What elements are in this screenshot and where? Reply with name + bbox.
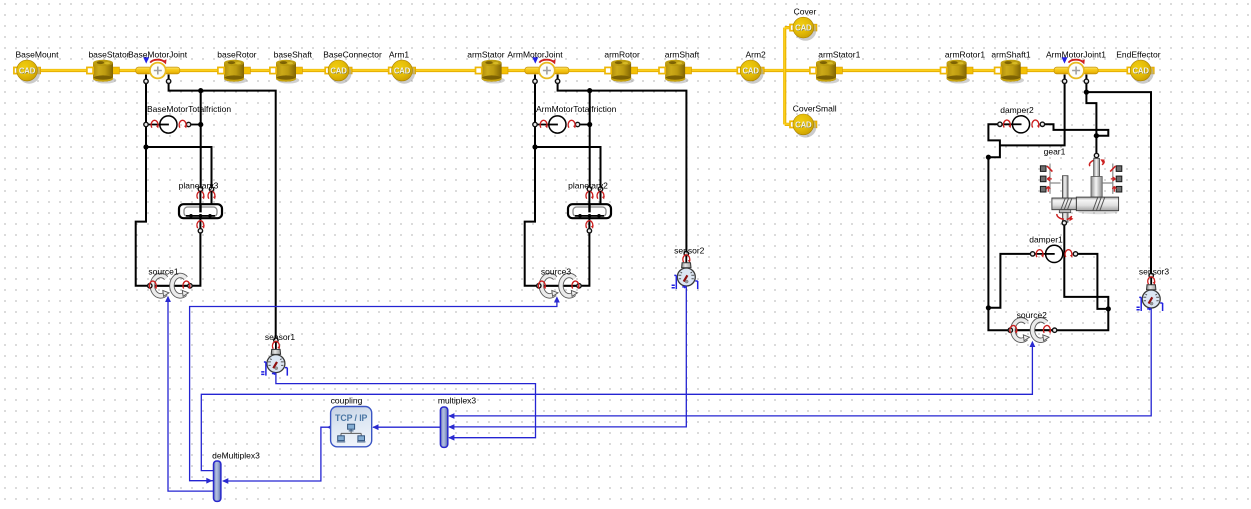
pin joint1 flanges	[1062, 79, 1066, 83]
wire damper2 left staircase down to source2 left	[988, 124, 1008, 330]
component CoverSmall	[790, 114, 817, 138]
component source3	[537, 275, 582, 296]
component planetary2	[568, 187, 611, 233]
wire from rail A junction to planetary right top pin	[146, 147, 212, 187]
svg-text:Arm1: Arm1	[389, 49, 410, 59]
component armShaft	[659, 60, 691, 84]
svg-text:armStator: armStator	[467, 49, 504, 59]
component multiplex3	[440, 407, 447, 447]
wire multiplex3 out to coupling	[373, 426, 440, 428]
svg-text:sensor1: sensor1	[265, 332, 296, 342]
wire deMultiplex3 out2 to source3	[190, 298, 557, 481]
arrowhead at coupling left pin	[327, 424, 333, 430]
gear1 housing bracket left	[1050, 164, 1061, 194]
svg-text:multiplex3: multiplex3	[438, 395, 477, 405]
component ArmMotorJoint1	[1054, 57, 1098, 78]
component source2	[1008, 320, 1057, 341]
junction dots arm assembly	[587, 88, 592, 93]
svg-text:armRotor1: armRotor1	[945, 49, 985, 59]
svg-text:BaseMotorJoint: BaseMotorJoint	[128, 49, 188, 59]
wire branch to Cover / CoverSmall	[785, 28, 791, 125]
wire deMultiplex3 out1 to source2	[201, 343, 1032, 471]
gear1 housing bracket right	[1102, 164, 1113, 194]
junction dots base assembly	[198, 88, 203, 93]
svg-text:planetary3: planetary3	[179, 180, 219, 190]
pin joint arm flanges	[533, 79, 537, 83]
svg-text:damper1: damper1	[1029, 235, 1063, 245]
component baseShaft	[270, 60, 303, 84]
wire joint support drop, H1 run right, long drop to sensor1	[169, 75, 276, 339]
svg-text:Arm2: Arm2	[745, 49, 766, 59]
arrowhead into deMultiplex3 right	[222, 478, 228, 484]
wire damper1 left down to rail	[988, 254, 1030, 308]
svg-text:BaseMotorTotalfriction: BaseMotorTotalfriction	[147, 104, 231, 114]
arrowhead at deMultiplex3 out2	[206, 478, 212, 484]
wire rail B: junction down through friction right pin to planetary pin	[200, 91, 202, 187]
svg-text:BaseMount: BaseMount	[16, 49, 60, 59]
wire friction right link	[187, 124, 201, 126]
component ArmMotorTotalfriction	[533, 116, 580, 133]
svg-text:planetary2: planetary2	[568, 180, 608, 190]
pin joint base flanges	[144, 79, 148, 83]
wire friction2 right link	[576, 124, 590, 126]
component BaseMount	[14, 60, 41, 84]
svg-text:EndEffector: EndEffector	[1116, 49, 1160, 59]
svg-text:damper2: damper2	[1000, 105, 1034, 115]
gear1 housing squares right	[1116, 166, 1122, 192]
wire friction left link	[146, 124, 168, 126]
svg-text:armShaft: armShaft	[665, 49, 700, 59]
wire sensor1 output to multiplex3 in3	[276, 373, 536, 438]
component sensor2	[672, 251, 698, 289]
wire deMultiplex3 out3 to source1	[168, 298, 213, 492]
arrowhead into coupling right	[372, 424, 378, 430]
wire main bus	[20, 69, 1150, 72]
component sensor3	[1137, 273, 1163, 311]
component deMultiplex3	[214, 461, 221, 501]
component Cover	[790, 17, 817, 41]
junction dots wrist assembly	[1084, 90, 1089, 95]
wire rail B arm: down through friction2 right pin to planetary2 pin	[589, 91, 591, 187]
component source1	[148, 275, 193, 296]
gear1 bottom hub and output shaft	[1059, 210, 1070, 213]
gear1 housing squares left	[1040, 166, 1046, 192]
wire sensor3 output to multiplex3 in1	[449, 308, 1151, 416]
component coupling TCP/IP	[331, 407, 372, 447]
svg-text:baseRotor: baseRotor	[217, 49, 256, 59]
wire joint flange_a drop + jog to source3 left	[525, 75, 537, 286]
component Arm1	[389, 60, 416, 84]
pin gear1 top	[1094, 153, 1098, 157]
component armStator	[476, 60, 509, 84]
wire rail A arm junction to planetary2 right top pin	[535, 147, 601, 187]
wire damper2 right hook to gear shaft	[1045, 124, 1109, 135]
svg-text:armRotor: armRotor	[604, 49, 640, 59]
svg-text:BaseConnector: BaseConnector	[323, 49, 382, 59]
gear1 red accents right	[1110, 166, 1115, 172]
svg-text:armShaft1: armShaft1	[991, 49, 1030, 59]
gear1 right input shaft	[1094, 159, 1100, 198]
component planetary3	[179, 187, 222, 233]
wire sensor2 output to multiplex3 in2	[449, 286, 686, 427]
component BaseConnector	[325, 60, 352, 84]
svg-text:Cover: Cover	[794, 7, 817, 17]
wire joint1 flange_a drop to damper2 row	[1000, 75, 1065, 146]
arrowheads into sources	[1030, 341, 1036, 347]
component EndEffector	[1127, 60, 1154, 84]
wire friction2 left link	[535, 124, 557, 126]
svg-text:ArmMotorTotalfriction: ArmMotorTotalfriction	[536, 104, 617, 114]
component Arm2	[737, 60, 764, 84]
arrowheads: multiplex3 inputs	[448, 413, 454, 419]
wire planetary bottom pin to source1 right	[192, 233, 200, 286]
svg-text:armStator1: armStator1	[818, 49, 860, 59]
wire joint support drop, run right, long drop to sensor2	[558, 75, 687, 253]
component gear1	[1040, 153, 1121, 225]
svg-text:sensor2: sensor2	[674, 245, 705, 255]
wire joint1 support drop, run right to sensor3, jog down to gear1 top	[1086, 75, 1151, 274]
component sensor1	[261, 338, 287, 376]
component armShaft1	[995, 60, 1027, 84]
component BaseMotorJoint	[136, 57, 180, 78]
wire coupling out to deMultiplex3 in	[223, 427, 331, 481]
svg-text:source1: source1	[148, 266, 179, 276]
component armRotor1	[941, 60, 973, 84]
component baseStator	[87, 60, 120, 84]
svg-text:source2: source2	[1017, 310, 1048, 320]
gear1 red accents left	[1047, 166, 1052, 172]
svg-text:TCP / IP: TCP / IP	[335, 413, 368, 423]
wire damper1 internal line	[1033, 253, 1055, 255]
svg-text:sensor3: sensor3	[1139, 266, 1170, 276]
wire joint flange_a drop + jog to source1 left	[136, 75, 148, 286]
component armStator1	[810, 60, 842, 84]
svg-text:CoverSmall: CoverSmall	[793, 104, 837, 114]
gear1 small disc	[1052, 198, 1076, 210]
svg-text:gear1: gear1	[1044, 147, 1066, 157]
wire gear1 output down, around to source2 right	[1057, 225, 1108, 331]
svg-text:ArmMotorJoint1: ArmMotorJoint1	[1046, 49, 1106, 59]
component armRotor	[605, 60, 637, 84]
component damper2	[998, 116, 1045, 133]
wire damper1 right to hook junction	[1078, 254, 1108, 309]
component BaseMotorTotalfriction	[144, 116, 191, 133]
wire damper2 internal line	[1000, 123, 1021, 125]
component damper1	[1030, 245, 1077, 262]
wire planetary2 bottom pin to source3 right	[581, 233, 589, 286]
svg-text:ArmMotorJoint: ArmMotorJoint	[507, 49, 563, 59]
component baseRotor	[218, 60, 251, 84]
gear1 left shaft	[1062, 176, 1068, 199]
svg-text:source3: source3	[541, 266, 572, 276]
svg-text:deMultiplex3: deMultiplex3	[212, 451, 260, 461]
svg-text:baseShaft: baseShaft	[274, 49, 313, 59]
pin gear1 bottom	[1062, 221, 1066, 225]
svg-text:coupling: coupling	[331, 395, 363, 405]
component ArmMotorJoint	[525, 57, 569, 78]
svg-text:baseStator: baseStator	[88, 49, 129, 59]
gear1 big disc	[1078, 210, 1118, 214]
